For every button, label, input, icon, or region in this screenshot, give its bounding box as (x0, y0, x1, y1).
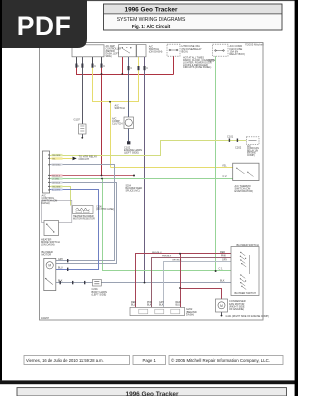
wire GRY controller staircase to blower hi (50, 165, 115, 261)
resistor element (76, 208, 90, 211)
footer page box (133, 356, 166, 365)
svg-text:1996 Geo Tracker: 1996 Geo Tracker (126, 391, 179, 396)
mode switch contact (47, 225, 54, 232)
wire YEL/GRN to resistor R1 (50, 187, 71, 206)
wire GRN controller to thermo switch S3 (50, 178, 233, 180)
arrow to heater circuit (73, 157, 77, 161)
svg-text:DASH): DASH) (186, 312, 194, 316)
svg-text:CIRCUITS (FUSE PANEL): CIRCUITS (FUSE PANEL) (183, 66, 211, 69)
wire BLK from junction block to ground G1 (82, 57, 84, 125)
svg-text:C: C (146, 67, 148, 70)
A/C thermo switch S3 (233, 163, 259, 180)
svg-text:MOTOR: MOTOR (42, 253, 52, 257)
wire RED up to fuse F1 (173, 56, 175, 75)
PDF badge (0, 0, 87, 48)
svg-text:C: C (94, 65, 96, 68)
wire YEL/GRN to thermo relay TR1 (50, 141, 247, 156)
svg-text:GRY: GRY (58, 258, 64, 261)
svg-text:G101 (RIGHT SIDE OF ENGINE COM: G101 (RIGHT SIDE OF ENGINE COMP) (226, 315, 270, 318)
wire PNK switch wire 2 (152, 258, 232, 308)
svg-text:M: M (220, 304, 223, 308)
svg-text:C101: C101 (227, 135, 234, 139)
svg-text:SYSTEM WIRING DIAGRAMS: SYSTEM WIRING DIAGRAMS (117, 17, 186, 23)
svg-text:YEL: YEL (222, 165, 227, 168)
svg-text:YEL: YEL (52, 158, 56, 160)
blower switch upper contact fan (241, 253, 250, 290)
junction dots (81, 73, 216, 289)
inline connector ticks C1 (75, 64, 145, 71)
blower switch S4 (231, 247, 259, 296)
svg-text:102297: 102297 (41, 317, 50, 320)
svg-text:SPLICE (A/C): SPLICE (A/C) (126, 189, 140, 192)
blower motor M1 (44, 258, 56, 290)
wire BLK motor ground stub (221, 312, 223, 315)
svg-text:(LEFT SIDE): (LEFT SIDE) (124, 151, 139, 155)
footer copyright box (169, 356, 283, 365)
wire BLU/BLK below clutch L1 (128, 129, 130, 142)
wire YEL from A/C switch S1 (138, 57, 140, 102)
condenser fan motor M2 (216, 299, 228, 312)
svg-text:PDF: PDF (17, 11, 72, 41)
wire GRY switch wire 3 (164, 262, 232, 308)
wire BLU controller to blower M1 (50, 190, 99, 270)
svg-text:BLOWER SWITCH: BLOWER SWITCH (237, 243, 259, 247)
svg-text:BLU: BLU (176, 303, 181, 306)
ground box G1 (79, 124, 87, 134)
svg-text:GRY: GRY (222, 259, 228, 262)
svg-text:BLK: BLK (220, 280, 225, 283)
svg-text:C 2: C 2 (223, 174, 228, 178)
svg-text:Fig. 1: A/C Circuit: Fig. 1: A/C Circuit (132, 24, 171, 29)
svg-text:BLU/WHT: BLU/WHT (52, 189, 61, 191)
next page header box (17, 388, 287, 396)
wire YEL to thermo switch S3 (111, 167, 233, 169)
svg-text:Viernes, 16 de Julio de 2010 1: Viernes, 16 de Julio de 2010 11:59:28 a.… (26, 358, 104, 363)
svg-text:LT GRN: LT GRN (52, 178, 59, 180)
heater control enclosure (42, 200, 72, 222)
svg-text:Page 1: Page 1 (143, 358, 157, 363)
thermo relay TR1 dashed box (246, 137, 259, 145)
A/C switch box S1b (137, 45, 146, 57)
inline connector C3 on ground rail (93, 279, 102, 286)
wire BLK below ground box G1 (82, 134, 84, 137)
svg-text:G107: G107 (74, 118, 81, 122)
wire RED from A/C switch S1 (122, 57, 124, 75)
wire RED/BLU branch to condenser fan motor M2 (181, 289, 222, 300)
svg-text:DASH): DASH) (42, 201, 50, 205)
wire YEL trunk down (110, 102, 112, 168)
page separator band (0, 380, 298, 384)
svg-text:C101: C101 (208, 59, 215, 63)
svg-text:GRY/BLK: GRY/BLK (52, 182, 61, 184)
svg-text:(ON HTR CASE): (ON HTR CASE) (96, 208, 114, 211)
wire RED/BLU switch wire 1 (136, 254, 232, 308)
wire PNK/BLU long drop from A/C switch S1 (144, 57, 146, 283)
svg-text:RELAY BOX): RELAY BOX) (230, 52, 245, 56)
controller pin ticks (48, 154, 49, 190)
svg-text:MOTOR RESISTOR: MOTOR RESISTOR (73, 217, 95, 220)
header box (104, 4, 283, 30)
heater A/C controller U1 (42, 151, 49, 193)
wire GRN branch down to blower switch S4 (102, 179, 104, 272)
wire YEL arrow stub (50, 158, 73, 160)
svg-text:BLOWER SWITCH: BLOWER SWITCH (235, 292, 257, 295)
compressor clutch L1 (124, 117, 134, 129)
svg-text:(LEFT SIDE): (LEFT SIDE) (92, 292, 107, 296)
svg-text:C202: C202 (235, 146, 242, 150)
svg-text:(ON DASH): (ON DASH) (41, 243, 55, 247)
svg-text:C: C (78, 65, 80, 68)
left page edge (0, 0, 2, 380)
wire GRY second staircase (50, 183, 117, 264)
wire RED controller pin rail (50, 175, 135, 177)
fuse F2 element (215, 50, 224, 52)
wire GRN from condenser fuse F2 down (215, 56, 217, 271)
wiring diagram frame (40, 43, 264, 321)
wire GRY blower to switch low rail (56, 282, 231, 284)
svg-text:© 2005 Mitchell Repair Informa: © 2005 Mitchell Repair Information Compa… (171, 358, 270, 363)
connector C2 square (127, 141, 130, 144)
svg-text:©2005 Mitchell: ©2005 Mitchell (245, 43, 264, 47)
fuse F2 dashed box (213, 44, 229, 56)
svg-text:YEL/GRN: YEL/GRN (52, 186, 61, 188)
svg-text:PNK/BLK: PNK/BLK (162, 256, 172, 258)
svg-text:M: M (48, 264, 51, 268)
clutch coil circle (125, 119, 132, 126)
wire YEL from junction block CB1 (92, 57, 94, 103)
inline ticks on blower rails (67, 259, 68, 262)
fuse F1 HTR dashed box (167, 44, 180, 56)
svg-text:CIRCUIT: CIRCUIT (79, 157, 90, 161)
svg-text:BLU: BLU (58, 267, 63, 270)
svg-text:EVAPORATOR): EVAPORATOR) (235, 189, 254, 193)
svg-text:PNK: PNK (221, 255, 226, 258)
svg-text:COMP): COMP) (247, 155, 255, 157)
fuse F1 element (170, 49, 178, 51)
svg-text:BLK: BLK (159, 303, 164, 306)
svg-text:SWITCH: SWITCH (115, 106, 125, 110)
blower motor circle (46, 262, 53, 269)
footer date box (24, 356, 130, 365)
wire colour chips at controller pins (52, 154, 63, 191)
svg-text:C 1: C 1 (219, 267, 224, 271)
connector block CB1 top left (under PDF badge) (72, 45, 104, 57)
svg-text:1996 Geo Tracker: 1996 Geo Tracker (125, 6, 178, 13)
resistor R1 box (73, 206, 94, 214)
A/C switch contact glyph (123, 47, 131, 53)
svg-text:OF ENGINE): OF ENGINE) (229, 307, 244, 311)
heater mode switch S2 (44, 221, 59, 236)
svg-text:YEL/GRN: YEL/GRN (52, 155, 61, 157)
svg-text:(ON DASH): (ON DASH) (149, 50, 163, 54)
svg-text:C: C (103, 65, 105, 68)
wire RED main feed horizontal (76, 74, 174, 76)
svg-text:GRY/BLK: GRY/BLK (172, 260, 182, 262)
svg-text:C: C (130, 67, 132, 70)
right page edge (295, 0, 298, 396)
wire GRN into blower switch S4 (103, 270, 232, 272)
wire BLU/BLK clutch feed (128, 57, 130, 117)
ticks on YEL/GRN wire (229, 139, 230, 142)
wire RED vertical drop to controller rail (101, 57, 103, 177)
A/C switch box S1 (119, 45, 137, 57)
svg-text:RED/BLU: RED/BLU (152, 252, 162, 254)
wire RED stub from junction block CB1 (76, 57, 78, 75)
wire YEL joining horizontal (93, 101, 139, 103)
svg-text:CLUTCH: CLUTCH (112, 122, 123, 126)
svg-text:BLK: BLK (147, 303, 152, 306)
svg-text:SIDE): SIDE) (106, 56, 112, 58)
dark pin stubs at connector CB1 (77, 57, 102, 65)
svg-text:GRY/RED: GRY/RED (52, 164, 61, 166)
svg-text:BLU: BLU (131, 303, 136, 306)
blower switch contact inside motor box (46, 279, 53, 285)
top hairline (0, 0, 298, 1)
ground connector block G2 (130, 307, 185, 315)
svg-text:BOX): BOX) (182, 49, 188, 53)
svg-text:RED/BLK: RED/BLK (52, 175, 61, 177)
wire RED/BLU branch to ground connector (180, 254, 182, 308)
thermo switch contacts (237, 169, 254, 177)
svg-text:BLK: BLK (58, 280, 63, 283)
svg-text:RED: RED (220, 251, 225, 254)
